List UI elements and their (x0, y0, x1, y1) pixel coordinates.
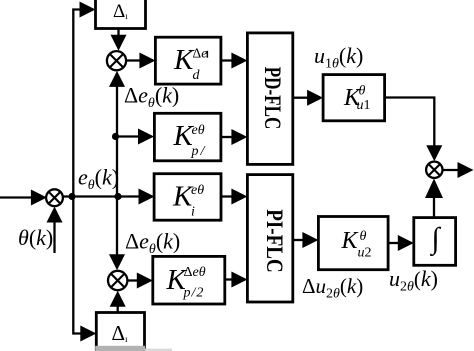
svg-text:p/2: p/2 (183, 286, 204, 301)
svg-text:eθ: eθ (191, 183, 204, 198)
svg-text:u1: u1 (357, 98, 371, 113)
svg-text:eθ(k): eθ(k) (78, 165, 119, 194)
svg-text:Δeθ(k): Δeθ(k) (125, 229, 180, 258)
svg-text:eθ: eθ (192, 123, 205, 138)
svg-text:i: i (191, 205, 195, 220)
svg-text:u2θ(k): u2θ(k) (389, 266, 438, 295)
svg-text:p/: p/ (191, 144, 206, 159)
svg-text:Δeθ(k): Δeθ(k) (124, 83, 179, 112)
svg-text:∫: ∫ (429, 222, 441, 257)
svg-text:θ: θ (360, 229, 367, 244)
svg-text:PD-FLC: PD-FLC (260, 67, 285, 130)
svg-text:θ(k): θ(k) (18, 225, 53, 250)
svg-text:Δu2θ(k): Δu2θ(k) (302, 274, 363, 302)
svg-text:PI-FLC: PI-FLC (262, 209, 287, 273)
svg-text:Δe: Δe (193, 46, 208, 61)
svg-text:u1θ(k): u1θ(k) (314, 43, 363, 72)
svg-text:Δeθ: Δeθ (184, 265, 206, 280)
svg-text:d: d (193, 68, 201, 83)
svg-text:u2: u2 (358, 246, 372, 261)
svg-text:θ: θ (359, 84, 366, 99)
